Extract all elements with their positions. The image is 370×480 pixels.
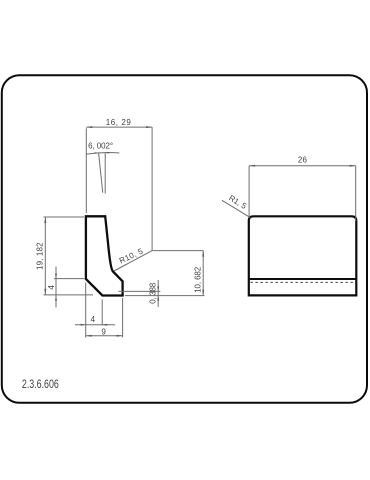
- right view: rounded plate: [249, 216, 356, 295]
- svg-text:19, 182: 19, 182: [36, 242, 45, 270]
- dimension 16,29: [86, 127, 152, 251]
- svg-text:2.3.6.606: 2.3.6.606: [22, 377, 59, 391]
- svg-text:4: 4: [47, 285, 56, 290]
- dimension 26: [249, 166, 356, 221]
- leader R10,5: [114, 251, 204, 271]
- dimension 19,182: [44, 217, 94, 295]
- svg-text:6, 002°: 6, 002°: [88, 142, 113, 151]
- svg-text:4: 4: [91, 315, 96, 324]
- left view: moulding profile outline: [86, 216, 123, 295]
- svg-text:9: 9: [101, 328, 106, 337]
- leader R1,5: [222, 200, 250, 217]
- border frame: [2, 75, 367, 403]
- dimension 9: [86, 298, 123, 338]
- svg-text:10, 682: 10, 682: [194, 266, 203, 293]
- dimension 6,002 degrees: [86, 153, 120, 194]
- svg-text:16, 29: 16, 29: [106, 118, 132, 127]
- dimension 10,682: [202, 251, 204, 296]
- svg-text:0, 388: 0, 388: [148, 282, 157, 304]
- dimension 4 (bottom): [75, 283, 115, 338]
- dashed center line: [251, 281, 356, 283]
- dimension 0,388: [118, 280, 204, 307]
- inner solid line: [249, 278, 356, 280]
- svg-text:26: 26: [298, 156, 308, 165]
- dimension 4 (left): [54, 267, 84, 308]
